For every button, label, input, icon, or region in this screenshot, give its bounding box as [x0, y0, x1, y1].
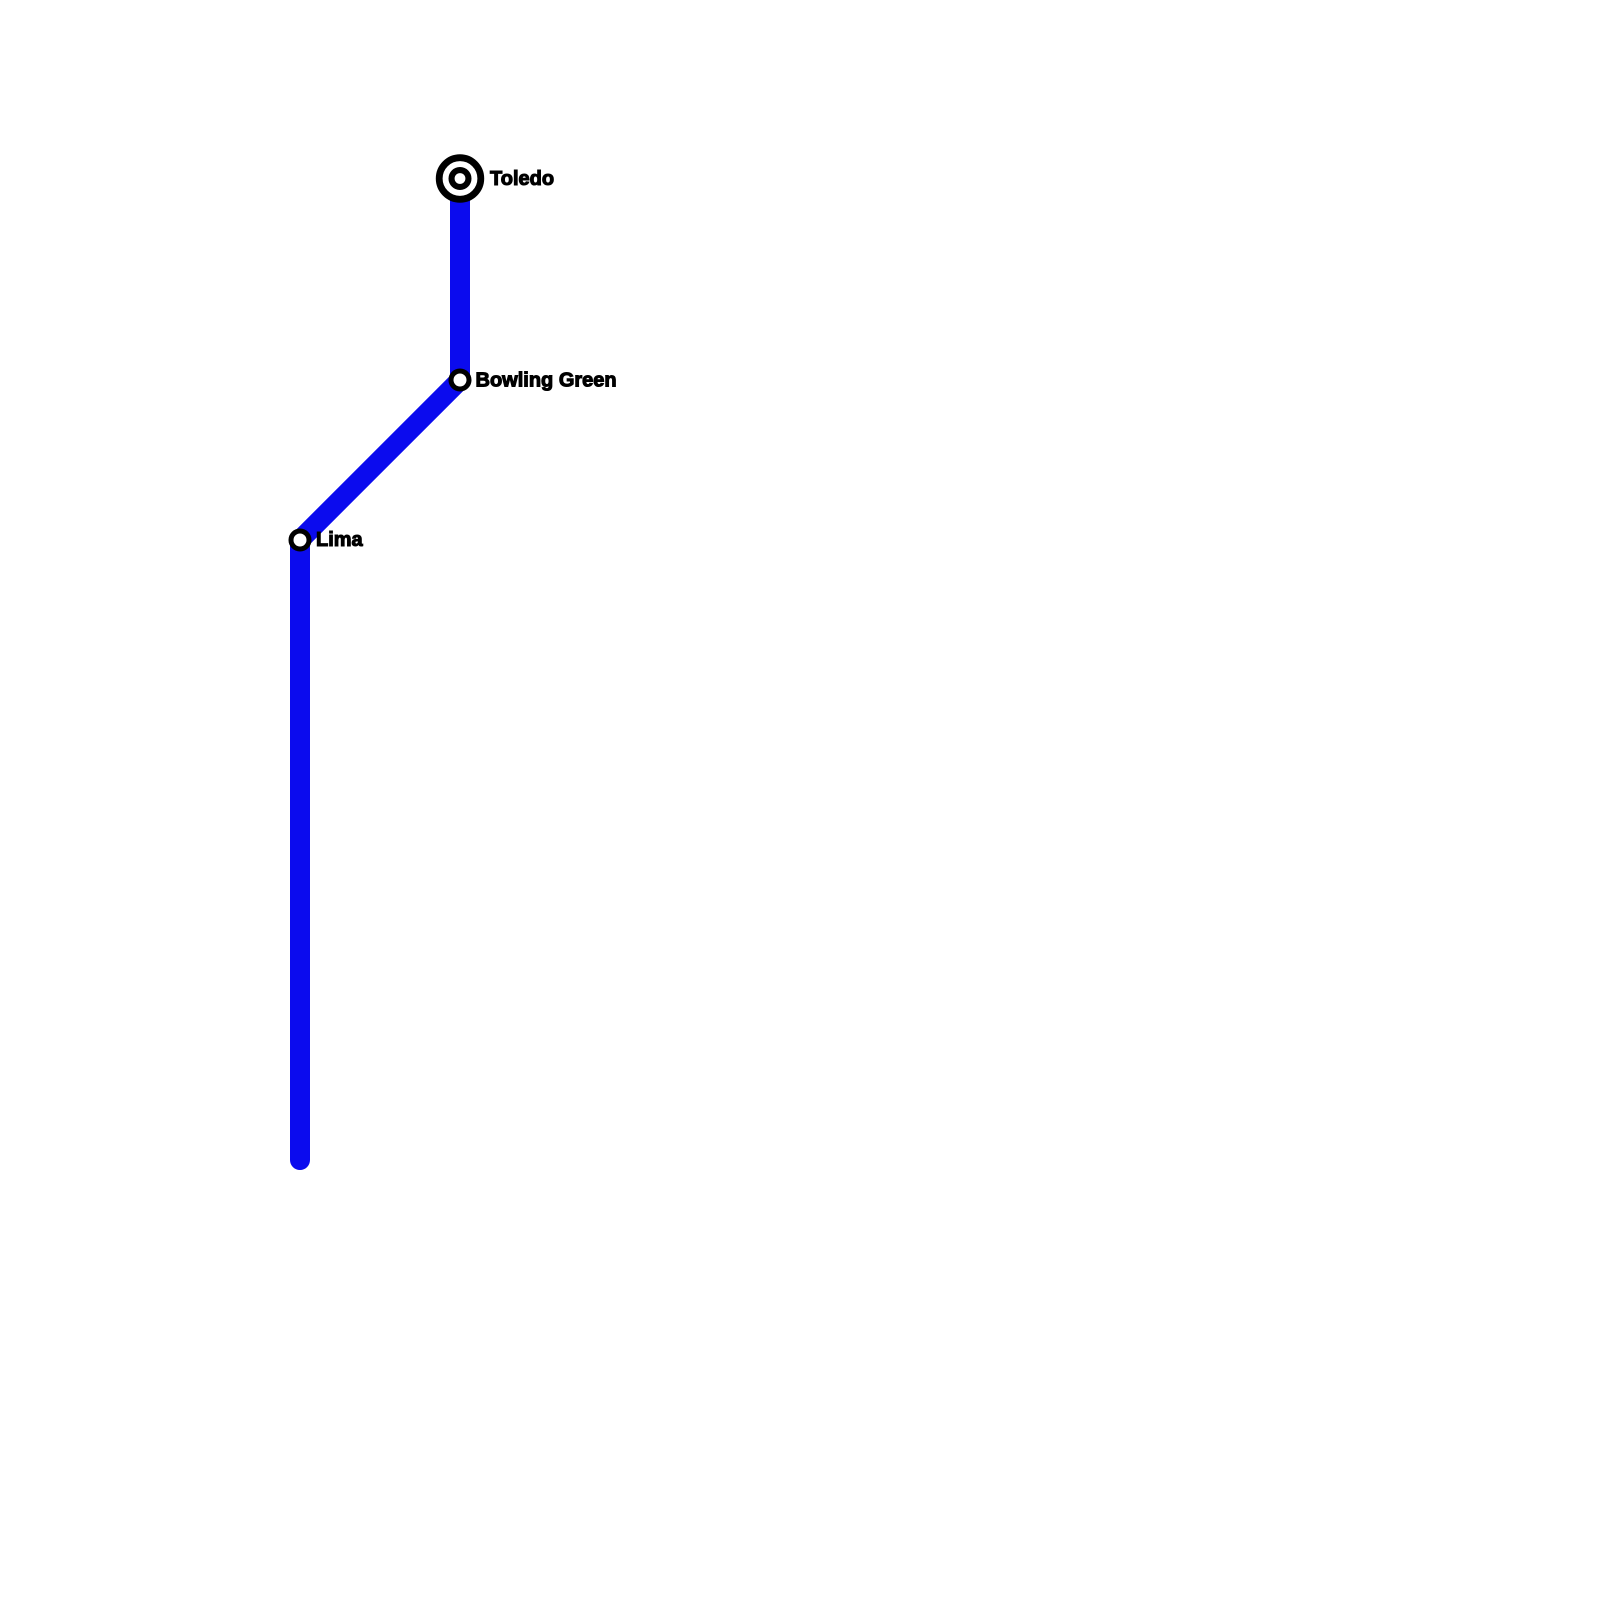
node Bowling Green: [451, 371, 469, 389]
node Toledo: [439, 158, 481, 200]
node Lima: [291, 531, 309, 549]
svg-text:Lima: Lima: [316, 529, 364, 551]
svg-text:Bowling Green: Bowling Green: [476, 369, 617, 391]
wire: [300, 179, 460, 1161]
svg-text:Toledo: Toledo: [490, 168, 554, 190]
